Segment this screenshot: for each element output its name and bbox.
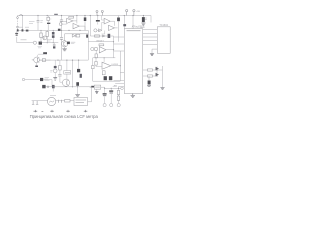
diode dark on rail y43: [39, 42, 42, 45]
svg-text:Принципиальная схема LCF метра: Принципиальная схема LCF метра: [30, 114, 99, 119]
capacitor dark at x87 y35: [86, 35, 88, 38]
svg-text:RESET: RESET: [97, 41, 105, 43]
wire x92.7 column: [92, 58, 94, 81]
power: AC plug prongs: [32, 101, 38, 105]
transistor VT3 oscillator: [62, 79, 69, 86]
text above VT2: [38, 53, 44, 55]
resistor ladder R5 x41: [40, 30, 42, 42]
wire x120.3 column: [119, 51, 121, 81]
dark comp right of VT4: [67, 42, 70, 45]
dark cap C10: [77, 60, 80, 72]
comparator U3.1: [99, 47, 113, 53]
terminal circles on box left edge: [17, 17, 19, 19]
wire LED line pin y76: [143, 75, 157, 77]
wire MCU left pin y44: [114, 43, 125, 45]
diode box on VT2 collector line: [40, 59, 51, 62]
wire rail to U3.2 top: [103, 58, 105, 62]
MCU IC1 box: [124, 29, 142, 94]
terminal circle left lower: [22, 78, 25, 81]
op-amp U2.2: [109, 25, 118, 30]
ground under LCD: [150, 54, 154, 56]
input circle x95: [94, 29, 100, 32]
wire osc right column: [72, 60, 74, 87]
emitter ground mark VT2: [35, 66, 38, 68]
text label right of C1: [40, 21, 43, 23]
node RESET net line: [88, 41, 113, 43]
diode on rail87 left: [42, 85, 45, 88]
LCD HG1 box: [157, 27, 170, 54]
transistor VT2: [32, 55, 40, 66]
capacitor C7 dark at MCU corner: [123, 16, 126, 29]
wire rail y58: [93, 57, 116, 59]
input box SA1 left edge: [17, 16, 19, 31]
diode right of circle: [99, 29, 102, 32]
svg-text:TC1602: TC1602: [159, 24, 168, 27]
resistor R13: [148, 75, 153, 77]
wire VT4 top lead and line y33.8: [65, 34, 89, 41]
ground LED chain: [160, 88, 164, 90]
op-amp U2.1: [102, 16, 115, 31]
resistor R1 drop x47: [47, 16, 51, 31]
wire LED common down: [157, 66, 163, 87]
wire drop x77: [76, 16, 78, 24]
text inside input box: [29, 22, 35, 24]
wire top +5V bus: [18, 15, 152, 17]
small specks above caption: [34, 110, 88, 112]
wire AC input line: [32, 100, 74, 102]
stub below x53: [52, 88, 54, 91]
dark cap pair above rail81: [104, 76, 107, 80]
capacitor C1 on box right edge: [37, 16, 40, 31]
capacitor dark blob at rail left: [58, 29, 61, 31]
regulator box B: [94, 85, 100, 89]
wire MCU left pin y80.4: [114, 79, 125, 81]
wire box A out: [88, 87, 92, 102]
dark comp above right of VT2: [43, 52, 47, 54]
ground below VT4: [62, 47, 67, 51]
input box bottom terminals: [17, 29, 29, 31]
resistor on AC line: [65, 100, 71, 102]
terminal post x97 above bus: [96, 10, 98, 15]
dark comp on wire x41: [40, 78, 43, 81]
wire MCU left pin y72.6: [121, 72, 125, 74]
wire MCU left pin y83.5: [115, 83, 124, 85]
capacitor C3 below rail x61.5: [60, 30, 63, 60]
left column x55 blob circle ground: [53, 60, 57, 80]
wire bus drop to MCU top x133: [132, 16, 134, 29]
box on x92.7 column: [92, 66, 95, 69]
dark comp right x80: [80, 74, 82, 78]
wire x88.3 column: [87, 30, 89, 60]
microphone input circle left: [59, 23, 66, 26]
bottom terminal circles row: [103, 104, 120, 107]
wire rail y87: [42, 86, 94, 88]
resistor R6 x47: [46, 30, 48, 42]
resistor R7 on line: [76, 34, 80, 37]
op-amp U1.1: [63, 18, 77, 23]
terminal +5V out circle: [113, 85, 124, 90]
text label above bus x55: [54, 13, 58, 15]
text label near battery: [21, 39, 27, 41]
op-amp U1.2: [73, 23, 85, 30]
wire drop x90: [89, 16, 91, 37]
text right of comp: [45, 78, 50, 81]
wire oscillator rail y60: [40, 59, 89, 61]
text label small mid-left: [48, 40, 53, 42]
wire MCU left pin y37: [114, 36, 125, 38]
wire +5 out rail: [90, 87, 121, 88]
resistor and cap column x60: [58, 60, 62, 82]
svg-text:+5B: +5B: [136, 11, 140, 13]
text marks right of VT4: [71, 42, 76, 43]
terminal post x102 above bus: [101, 10, 103, 15]
wires MCU to LCD pins: [143, 30, 158, 45]
quartz ZQ1 dark with ground: [140, 16, 146, 29]
capacitor dark drop x85: [84, 16, 87, 31]
dark cap pair above rail81 b: [109, 76, 112, 80]
AC source circle G2: [47, 97, 55, 105]
capacitor dark drop x118.5: [117, 16, 120, 42]
resistor feedback above U3.1: [99, 44, 104, 46]
switch SA on top edge: [19, 14, 22, 15]
terminal post XP2 above bus: [133, 10, 135, 16]
dark comp rail87 x53: [52, 85, 55, 88]
battery GB1: [15, 30, 18, 42]
wire rail y43: [17, 42, 58, 44]
resistor from rail to U3.2: [95, 58, 102, 67]
text inside MCU top: [127, 30, 141, 32]
wire MCU left pin y51: [114, 50, 125, 52]
transistor VT4 mid: [62, 41, 68, 47]
wire LED line pin y70: [143, 69, 157, 71]
component below rail43 x54: [53, 43, 56, 49]
svg-text:ATtiny2313: ATtiny2313: [132, 25, 145, 28]
diodes VD1 VD2 dark x53: [52, 30, 55, 42]
small comp on regulator input: [91, 86, 94, 88]
comparator U3.2: [102, 62, 120, 69]
svg-text:LM393: LM393: [111, 64, 118, 66]
box below U3.2: [102, 71, 105, 75]
cap C12 dark on x104.6: [103, 88, 107, 103]
wire LCD ground pin: [152, 49, 157, 53]
terminal post XP1 above bus: [126, 10, 128, 16]
bridge module box A: [74, 98, 88, 106]
wire from U2 area down: [102, 31, 105, 35]
cap C13 dark on x111.2: [109, 88, 113, 103]
transistor blob lower at x149: [147, 76, 151, 87]
text labels above bottom edge of input box: [19, 26, 29, 28]
text below rail y43: [38, 46, 43, 48]
junction circle rail87: [47, 86, 49, 88]
wire continue to osc: [43, 80, 52, 87]
wire x113.5 column: [113, 36, 115, 58]
text above AC circle: [50, 95, 56, 97]
wire column x118.5 with parts to ground: [117, 87, 119, 104]
input circle U3.1: [91, 47, 94, 50]
oscillator box G1: [64, 60, 71, 79]
capacitor C2 drop x61.5: [60, 16, 63, 31]
resistor below U3.1: [95, 50, 97, 58]
small marks on AC line: [58, 100, 61, 103]
resistor R3 feedback above U1.1: [69, 16, 74, 18]
LED HL1: [156, 67, 159, 71]
text left of column: [50, 70, 52, 72]
wire mid rail y30: [18, 29, 89, 31]
wire rail y81: [93, 80, 121, 82]
transistor VT1 circle: [43, 36, 47, 40]
components on y36 line: [90, 34, 113, 38]
LED HL2: [156, 73, 159, 77]
dark blob with ground x77.5: [75, 82, 80, 96]
diode VD3 on line: [72, 34, 75, 37]
input box mid divider: [21, 16, 23, 31]
ground below box B: [95, 89, 98, 94]
box at U3.1 input: [95, 48, 98, 51]
resistor R12: [148, 69, 153, 71]
junction dots: [22, 15, 158, 89]
wire bus right drop: [150, 16, 152, 23]
transistor circle on rail y43: [33, 41, 36, 44]
svg-text:+5B: +5B: [113, 85, 118, 88]
wire MCU left pin y86.5: [119, 86, 125, 88]
wire from terminal: [25, 79, 40, 81]
capacitor C5 dark below bus: [96, 16, 100, 25]
ground below MCU: [131, 94, 136, 98]
